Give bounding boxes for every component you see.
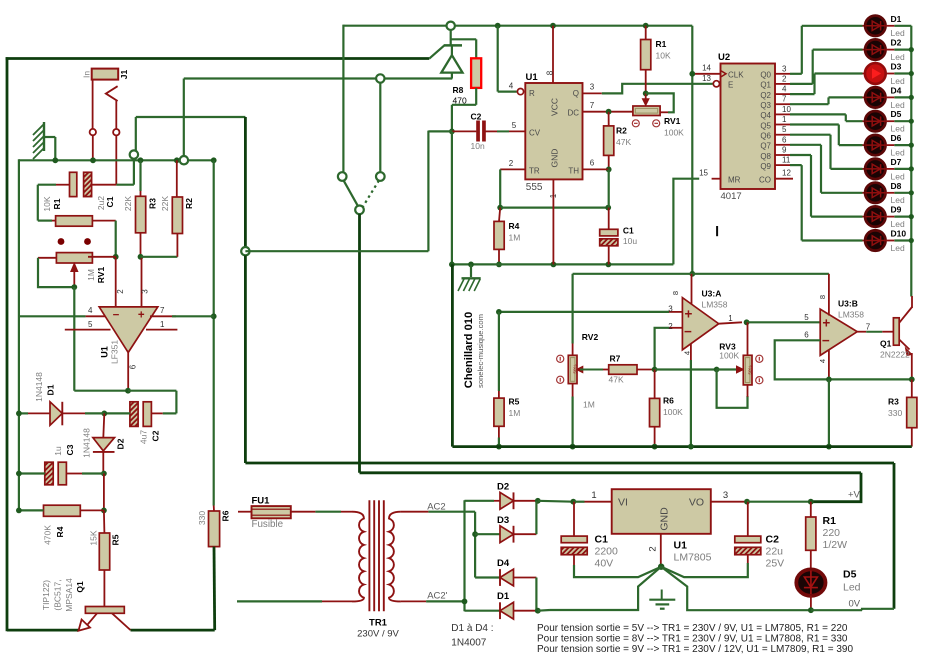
svg-text:D4: D4 [891, 85, 902, 95]
svg-text:R4: R4 [55, 526, 65, 537]
svg-text:CO: CO [759, 175, 771, 184]
svg-text:2: 2 [648, 546, 659, 551]
svg-text:4: 4 [818, 359, 827, 363]
svg-text:AC2: AC2 [427, 502, 445, 513]
svg-text:8: 8 [818, 295, 827, 299]
svg-text:1u: 1u [53, 446, 63, 456]
svg-text:2N2222: 2N2222 [880, 350, 910, 360]
svg-text:C2: C2 [766, 534, 780, 546]
svg-text:Led: Led [843, 582, 861, 594]
svg-text:sonelec-musique.com: sonelec-musique.com [476, 314, 485, 388]
svg-text:R7: R7 [610, 354, 621, 364]
svg-text:D3: D3 [891, 62, 902, 72]
svg-text:U1: U1 [674, 540, 688, 552]
svg-text:VI: VI [618, 497, 628, 509]
svg-text:Q1: Q1 [880, 339, 892, 349]
svg-text:1N4148: 1N4148 [82, 428, 92, 458]
svg-text:22u: 22u [766, 546, 784, 558]
svg-text:Q2: Q2 [760, 91, 771, 100]
svg-text:10K: 10K [656, 51, 671, 61]
svg-text:5: 5 [512, 121, 517, 130]
svg-text:C1: C1 [623, 226, 634, 236]
svg-text:6: 6 [590, 159, 595, 168]
svg-text:Q0: Q0 [760, 71, 771, 80]
svg-text:R: R [529, 89, 535, 98]
svg-text:D5: D5 [843, 569, 857, 581]
svg-text:1N4007: 1N4007 [451, 638, 486, 649]
svg-text:555: 555 [526, 182, 543, 193]
svg-text:FU1: FU1 [252, 496, 271, 507]
svg-text:Led: Led [891, 243, 905, 253]
svg-text:D2: D2 [497, 482, 509, 493]
svg-text:5: 5 [782, 125, 787, 134]
svg-text:230V / 9V: 230V / 9V [357, 629, 399, 640]
svg-text:D2: D2 [891, 38, 902, 48]
svg-text:R3: R3 [148, 198, 158, 209]
svg-text:Led: Led [891, 124, 905, 134]
svg-text:13: 13 [702, 74, 711, 83]
svg-text:3: 3 [723, 490, 728, 501]
svg-text:Q: Q [573, 89, 579, 98]
svg-text:+: + [685, 306, 693, 321]
svg-text:2: 2 [509, 159, 514, 168]
svg-text:RV1: RV1 [96, 267, 106, 284]
svg-text:C1: C1 [105, 196, 115, 207]
svg-text:4u7: 4u7 [139, 430, 149, 444]
svg-text:Q9: Q9 [760, 162, 771, 171]
svg-text:AC2': AC2' [427, 591, 447, 602]
svg-text:C2: C2 [471, 112, 482, 122]
svg-text:10n: 10n [471, 141, 485, 151]
svg-text:1M: 1M [509, 408, 521, 418]
svg-text:D2: D2 [116, 438, 126, 449]
svg-text:J1: J1 [119, 70, 129, 80]
svg-text:R3: R3 [888, 397, 899, 407]
svg-text:R5: R5 [111, 534, 121, 545]
svg-text:2200: 2200 [595, 546, 619, 558]
svg-text:U1: U1 [526, 72, 539, 83]
svg-text:1: 1 [728, 314, 733, 323]
svg-text:−: − [822, 333, 830, 348]
svg-text:100K: 100K [664, 128, 684, 138]
svg-text:8: 8 [546, 70, 555, 75]
svg-text:E: E [728, 81, 733, 90]
svg-text:CLK: CLK [728, 70, 744, 79]
svg-text:D10: D10 [891, 229, 907, 239]
svg-text:VCC: VCC [550, 98, 560, 116]
svg-text:D3: D3 [497, 515, 509, 526]
svg-text:+V: +V [848, 490, 861, 501]
svg-text:Q3: Q3 [760, 101, 771, 110]
svg-text:R5: R5 [509, 397, 520, 407]
svg-text:3: 3 [141, 289, 150, 294]
svg-text:100K: 100K [719, 351, 739, 361]
svg-text:3: 3 [782, 64, 787, 73]
svg-text:Led: Led [891, 52, 905, 62]
svg-text:50%: 50% [573, 364, 578, 373]
svg-text:11: 11 [782, 156, 791, 165]
svg-text:3: 3 [590, 83, 595, 92]
svg-text:1N4148: 1N4148 [34, 372, 44, 402]
svg-text:7: 7 [782, 95, 787, 104]
svg-text:1: 1 [782, 115, 787, 124]
svg-text:12: 12 [782, 169, 791, 178]
svg-text:D8: D8 [891, 181, 902, 191]
svg-text:R8: R8 [453, 85, 464, 95]
svg-text:Q1: Q1 [75, 581, 85, 593]
svg-text:1M: 1M [509, 233, 521, 243]
svg-text:−: − [113, 310, 120, 322]
svg-text:Q7: Q7 [760, 142, 771, 151]
svg-text:+: + [822, 316, 830, 331]
svg-text:Q4: Q4 [760, 111, 771, 120]
svg-text:U3:B: U3:B [838, 299, 858, 309]
svg-text:Pour tension sortie = 8V --> T: Pour tension sortie = 8V --> TR1 = 230V … [537, 634, 848, 645]
svg-text:Q5: Q5 [760, 121, 771, 130]
svg-text:D9: D9 [891, 205, 902, 215]
svg-text:1: 1 [591, 490, 596, 501]
svg-text:MR: MR [728, 175, 741, 184]
svg-text:4: 4 [782, 85, 787, 94]
svg-text:GND: GND [550, 149, 560, 168]
svg-text:100K: 100K [663, 407, 683, 417]
svg-text:220: 220 [823, 527, 841, 539]
svg-text:50%: 50% [748, 365, 753, 374]
svg-text:0V: 0V [849, 599, 861, 610]
svg-text:6: 6 [129, 364, 138, 369]
svg-text:Led: Led [891, 219, 905, 229]
svg-text:C1: C1 [595, 534, 609, 546]
svg-text:TR: TR [529, 166, 540, 175]
svg-text:10: 10 [782, 105, 791, 114]
svg-text:D1: D1 [891, 14, 902, 24]
svg-text:R1: R1 [656, 39, 667, 49]
svg-text:10K: 10K [42, 196, 52, 211]
svg-text:RV2: RV2 [582, 332, 599, 342]
svg-text:8: 8 [671, 291, 680, 295]
svg-text:4017: 4017 [721, 191, 742, 202]
svg-text:VO: VO [689, 497, 704, 509]
svg-text:MPSA14: MPSA14 [64, 578, 74, 612]
svg-text:2: 2 [668, 322, 673, 331]
svg-text:D1: D1 [497, 591, 510, 602]
svg-text:LM358: LM358 [702, 300, 728, 310]
svg-text:D6: D6 [891, 133, 902, 143]
svg-text:4: 4 [682, 351, 691, 355]
svg-text:6: 6 [804, 331, 809, 340]
svg-text:4: 4 [88, 306, 93, 315]
svg-text:TIP122): TIP122) [41, 580, 51, 610]
svg-text:R6: R6 [663, 396, 674, 406]
svg-text:+: + [138, 310, 145, 322]
svg-text:D7: D7 [891, 157, 902, 167]
svg-text:Pour tension sortie = 5V --> T: Pour tension sortie = 5V --> TR1 = 230V … [537, 623, 848, 634]
svg-text:U2: U2 [718, 52, 730, 63]
svg-text:25V: 25V [766, 558, 785, 570]
svg-text:Chenillard 010: Chenillard 010 [463, 312, 475, 388]
svg-text:7: 7 [866, 323, 871, 332]
svg-text:R6: R6 [221, 510, 231, 521]
svg-text:GND: GND [659, 507, 671, 531]
svg-text:47K: 47K [609, 375, 624, 385]
svg-text:1M: 1M [86, 269, 96, 281]
svg-text:C2: C2 [151, 430, 161, 441]
svg-text:Q8: Q8 [760, 152, 771, 161]
svg-text:U3:A: U3:A [702, 289, 722, 299]
svg-text:15: 15 [699, 169, 708, 178]
svg-text:470K: 470K [43, 525, 53, 545]
svg-text:14: 14 [702, 64, 711, 73]
svg-text:D1 à D4 :: D1 à D4 : [451, 623, 493, 634]
svg-text:7: 7 [590, 101, 595, 110]
svg-text:Pour tension sortie = 9V --> T: Pour tension sortie = 9V --> TR1 = 230V … [537, 644, 853, 655]
svg-text:−: − [684, 324, 692, 339]
svg-text:1M: 1M [583, 400, 595, 410]
svg-text:5: 5 [804, 313, 809, 322]
svg-text:RV1: RV1 [664, 116, 681, 126]
svg-text:330: 330 [888, 408, 902, 418]
svg-text:3: 3 [668, 305, 673, 314]
svg-text:D4: D4 [497, 558, 510, 569]
svg-text:D1: D1 [46, 384, 56, 395]
svg-text:15K: 15K [89, 530, 99, 545]
svg-text:C3: C3 [65, 444, 75, 455]
svg-text:7: 7 [160, 306, 165, 315]
svg-text:2: 2 [116, 289, 125, 294]
svg-text:1: 1 [160, 320, 165, 329]
svg-text:R2: R2 [616, 126, 627, 136]
svg-text:10u: 10u [623, 236, 637, 246]
svg-text:LM358: LM358 [838, 310, 864, 320]
svg-text:40V: 40V [595, 558, 614, 570]
svg-text:TR1: TR1 [369, 618, 388, 629]
svg-text:(BC517,: (BC517, [53, 579, 63, 610]
svg-text:D5: D5 [891, 109, 902, 119]
svg-text:47K: 47K [616, 137, 631, 147]
svg-text:TH: TH [568, 166, 579, 175]
svg-text:2: 2 [782, 74, 787, 83]
svg-text:330: 330 [197, 511, 207, 525]
svg-text:CV: CV [529, 128, 541, 137]
svg-text:1/2W: 1/2W [823, 539, 848, 551]
svg-text:5: 5 [88, 320, 93, 329]
svg-text:R2: R2 [184, 198, 194, 209]
svg-text:R4: R4 [509, 221, 520, 231]
svg-text:4: 4 [509, 82, 514, 91]
svg-text:U1: U1 [100, 346, 110, 358]
svg-text:Q1: Q1 [760, 81, 771, 90]
svg-text:Led: Led [891, 171, 905, 181]
svg-text:22K: 22K [160, 196, 170, 211]
svg-text:Led: Led [891, 76, 905, 86]
svg-text:R1: R1 [823, 515, 837, 527]
svg-text:In: In [82, 71, 92, 78]
svg-text:R1: R1 [52, 198, 62, 209]
svg-text:22K: 22K [123, 196, 133, 211]
svg-text:LF351: LF351 [110, 340, 120, 364]
svg-text:9: 9 [782, 146, 787, 155]
svg-text:Q6: Q6 [760, 132, 771, 141]
svg-text:6: 6 [782, 135, 787, 144]
svg-text:2u2: 2u2 [96, 196, 106, 210]
svg-text:Fusible: Fusible [252, 519, 284, 530]
svg-text:DC: DC [567, 109, 579, 118]
svg-text:LM7805: LM7805 [674, 552, 712, 564]
